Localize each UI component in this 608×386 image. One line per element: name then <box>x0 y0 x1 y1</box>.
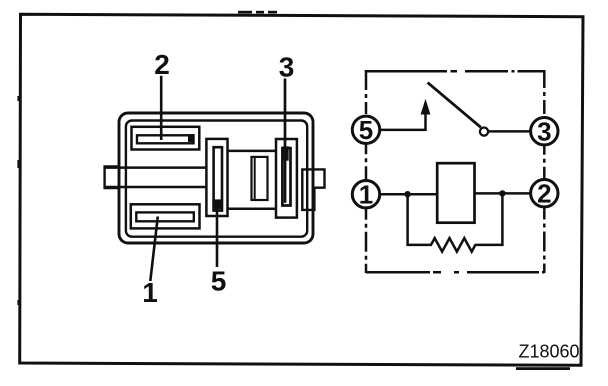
chain border bottom <box>366 271 544 274</box>
chain border right upper <box>543 70 546 118</box>
middle slot outer <box>252 157 268 200</box>
relay body outer shell <box>119 113 313 243</box>
wire 1 to coil <box>379 193 437 196</box>
terminal circle 2 <box>531 180 558 207</box>
wire contact to 3 <box>488 130 531 133</box>
frame ticks left <box>17 96 19 101</box>
terminal 2 slot box <box>132 127 200 150</box>
junction dot right <box>499 190 505 196</box>
terminal circle 3 <box>531 118 558 145</box>
svg-text:2: 2 <box>154 49 170 80</box>
center column <box>206 139 227 216</box>
terminal 5 contact <box>212 199 221 209</box>
svg-text:1: 1 <box>142 277 158 308</box>
leader line 1 <box>150 217 158 282</box>
svg-text:2: 2 <box>537 178 551 208</box>
svg-text:Z18060: Z18060 <box>519 342 580 362</box>
leader line 3 <box>284 79 287 156</box>
left key tab <box>105 167 118 189</box>
left divider line lower <box>105 186 207 189</box>
chain border left lower <box>365 208 368 273</box>
chain border right lower <box>543 207 546 274</box>
svg-text:3: 3 <box>279 52 295 83</box>
wire 5 to switch <box>379 129 425 132</box>
switch blade <box>428 83 481 128</box>
leader line 2 <box>160 76 163 140</box>
right key feature <box>302 169 324 210</box>
switch arrow head <box>421 99 431 115</box>
switch arrow shaft <box>424 112 427 131</box>
coil U1 <box>437 163 474 223</box>
terminal circle 5 <box>352 116 379 143</box>
relay body inner shell <box>126 121 307 237</box>
terminal 3 slot <box>282 148 290 205</box>
resistor branch <box>408 193 503 251</box>
chain border left upper <box>365 70 368 116</box>
svg-text:1: 1 <box>359 179 373 209</box>
switch contact circle <box>480 128 488 136</box>
middle slot inner <box>254 157 256 200</box>
leader line 5 <box>216 204 219 267</box>
chain border top <box>366 70 544 73</box>
terminal 3 pin line <box>284 160 287 203</box>
frame smudge top <box>238 11 252 14</box>
chain border left middle <box>365 143 368 180</box>
left divider line upper <box>105 166 207 169</box>
terminal 1 slot bar <box>136 212 194 221</box>
terminal circle 1 <box>352 181 379 208</box>
terminal 3 contact <box>283 146 289 160</box>
wire coil to 2 <box>475 192 532 195</box>
bridge line top <box>228 150 277 153</box>
bridge line bottom <box>228 207 277 210</box>
frame smudge bottom right <box>516 367 570 370</box>
chain border right middle <box>543 145 546 180</box>
terminal 3 box <box>276 139 297 218</box>
svg-text:3: 3 <box>537 116 551 146</box>
svg-text:5: 5 <box>211 266 227 297</box>
terminal 5 slot <box>214 147 222 210</box>
terminal 2 slot bar <box>137 135 194 143</box>
terminal 2 slot end blob <box>188 134 194 142</box>
junction dot left <box>404 191 410 197</box>
svg-text:5: 5 <box>359 115 373 145</box>
terminal 1 slot box <box>131 204 200 228</box>
